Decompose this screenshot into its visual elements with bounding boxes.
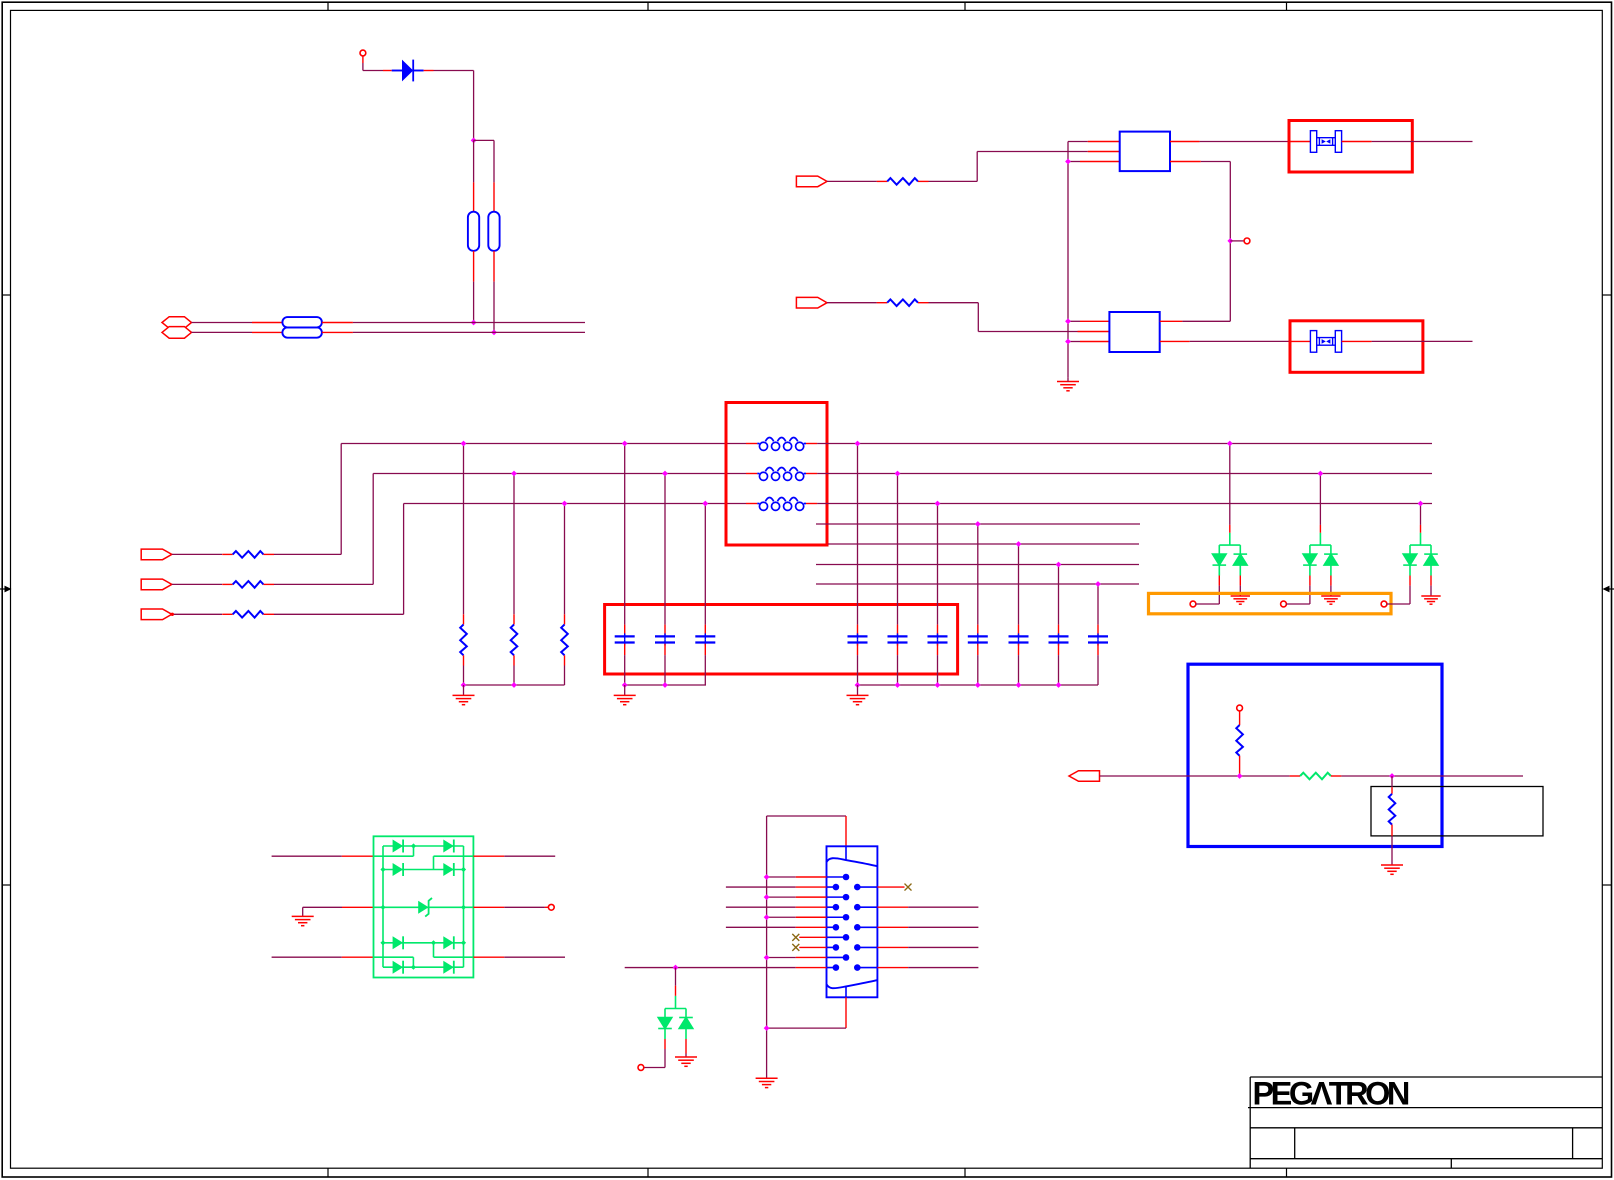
capacitor C8 xyxy=(1018,625,1020,636)
ESD diode pair DP2 xyxy=(1303,533,1338,576)
junction (green) xyxy=(411,843,416,848)
array zener DZ xyxy=(418,901,428,914)
filter element FL1 xyxy=(1310,131,1341,153)
wire capacitor bus right xyxy=(858,684,1099,686)
resistor pulldown RP3 xyxy=(564,614,566,624)
junction (green) xyxy=(411,965,416,970)
wire array mid net ground stem xyxy=(302,907,304,916)
DB9 pin row 4 xyxy=(827,906,836,908)
junction branch2 on bus B xyxy=(491,330,497,336)
wire DB9 row5 from shield net xyxy=(767,916,796,918)
no-connect row8 xyxy=(792,944,799,951)
wire row3 to capacitor C6 xyxy=(937,504,939,625)
array row D line xyxy=(383,966,464,968)
wire U-top out pin2 feedback xyxy=(1170,161,1201,163)
DB9 pin row 2 xyxy=(827,886,836,888)
capacitor C2 xyxy=(664,625,666,636)
array diode D3 xyxy=(393,863,404,876)
junction row3 RP3 xyxy=(562,501,568,507)
wire resistor ground bus xyxy=(464,684,565,686)
array diode D7 xyxy=(393,961,404,974)
wire capacitor C5 to bus xyxy=(897,655,899,685)
wire from terminal xyxy=(362,56,364,63)
inductor winding L2 xyxy=(746,473,757,475)
ground capacitor bus right xyxy=(847,695,869,704)
wire branch 1 lower xyxy=(473,251,475,282)
wire row2 to capacitor C5 xyxy=(897,474,899,625)
wire U-top pin1 xyxy=(1068,141,1088,143)
wire RV2 to ground xyxy=(1391,836,1393,865)
wire row6 to capacitor C9 xyxy=(1058,565,1060,625)
resistor series R-T2 xyxy=(877,302,888,304)
ground DP2 xyxy=(1321,596,1340,604)
wire bus row6 xyxy=(816,564,1139,566)
capacitor C7 xyxy=(977,625,979,636)
ground RV2 xyxy=(1381,865,1403,874)
terminal feedback xyxy=(1244,238,1250,244)
capacitor C3 xyxy=(704,625,706,636)
DB9 pin row 8 xyxy=(827,946,836,948)
wire DB9 row3 from shield net xyxy=(767,896,796,898)
capacitor C1 xyxy=(624,625,626,636)
wire capacitor C4 to bus xyxy=(857,655,859,685)
wire bus row3 xyxy=(404,503,746,505)
resistor pullup RV1 xyxy=(1239,711,1241,725)
input port TX1 xyxy=(796,176,827,187)
inductor winding L1 xyxy=(746,443,757,445)
junction (green) xyxy=(380,940,385,945)
wire DB9 bottom to shield xyxy=(845,997,847,1028)
transformer callout box (red) xyxy=(726,403,827,546)
DB9 pin row 5 xyxy=(827,916,847,918)
junction cap bus xyxy=(1056,682,1062,688)
wire DB9 row9 from shield net xyxy=(767,956,796,958)
wire U-bot pin1 xyxy=(1068,320,1080,322)
junction (green) xyxy=(461,905,466,910)
junction fuse branch split xyxy=(471,138,477,144)
wire DB9 right row4 xyxy=(877,906,908,908)
junction RV2 on output net xyxy=(1389,773,1395,779)
array inner right rail xyxy=(463,846,465,967)
junction row2 RP2 xyxy=(511,471,517,477)
callout box filter 1 (red) xyxy=(1289,121,1412,173)
wire diode to corner xyxy=(424,70,434,72)
svg-text:PEGΛTRON: PEGΛTRON xyxy=(1253,1076,1409,1112)
wire capacitor bus left xyxy=(625,684,706,686)
wire row1 to resistor xyxy=(463,444,465,615)
ground TVS xyxy=(675,1057,697,1066)
wire row2 to capacitor C2 xyxy=(664,474,666,625)
junction branch1 on bus A xyxy=(471,320,477,326)
junction shield row5 xyxy=(764,914,770,920)
wire U-top pin3 xyxy=(1068,161,1080,163)
junction RV1 on output net xyxy=(1237,773,1243,779)
resistor RV2 xyxy=(1391,776,1393,787)
array entry bottom xyxy=(374,956,414,958)
wire DB9 right row6 xyxy=(877,926,908,928)
wire capacitor C1 to bus xyxy=(624,655,626,685)
wire row1 to diode pair DP1 xyxy=(1229,444,1231,525)
resistor series R1 xyxy=(222,553,233,555)
junction (green) xyxy=(380,867,385,872)
wire U-bot out pin2 to filter 2 xyxy=(1160,340,1190,342)
border center arrow left xyxy=(0,588,5,590)
wire TVS left branch xyxy=(664,1039,666,1049)
wire DB9 row4 long left xyxy=(726,906,796,908)
no-connect right row2 xyxy=(905,884,912,891)
resistor pulldown RP2 xyxy=(513,614,515,624)
wire DP1 right branch to ground xyxy=(1239,586,1241,596)
array zener row line xyxy=(374,906,474,908)
wire resistor RP1 to bus xyxy=(463,666,465,686)
border zone ticks right xyxy=(1602,294,1611,296)
terminal array mid xyxy=(548,904,554,910)
filter element FL2 xyxy=(1310,331,1341,353)
border zone ticks left xyxy=(2,294,10,296)
wire branch 1 upper xyxy=(473,140,475,182)
array row C line xyxy=(383,942,464,944)
junction row1 DP1 xyxy=(1227,441,1233,447)
diode D top-left xyxy=(392,70,402,72)
wire row4 to capacitor C7 xyxy=(977,524,979,625)
wire bus row1 right xyxy=(817,443,1432,445)
terminal TVS xyxy=(638,1065,644,1071)
wire DB9 row6 long left xyxy=(726,926,796,928)
wire R1 to bus row1 xyxy=(274,553,341,555)
wire DB9 row10 bottom net xyxy=(625,967,796,969)
terminal T1 xyxy=(1190,601,1196,607)
pin mark P3 tip xyxy=(171,613,174,616)
wire U-bot pin3 xyxy=(1068,341,1080,343)
wire bus row7 xyxy=(816,583,1139,585)
terminal top-left xyxy=(360,50,366,56)
DB9 pin row 6 xyxy=(827,926,836,928)
junction (green) xyxy=(431,940,436,945)
wire array top net left xyxy=(272,855,342,857)
wire input P1 xyxy=(172,553,222,555)
array entry top xyxy=(374,855,414,857)
wire T2 to DP2 xyxy=(1286,603,1310,605)
input port P2 xyxy=(141,579,172,590)
input port P1 xyxy=(141,549,172,560)
junction shield row9 xyxy=(764,955,770,961)
wire resistor RP2 to bus xyxy=(513,666,515,686)
junction U-bot pin3 xyxy=(1065,339,1071,345)
wire U-top out pin1 to filter 1 xyxy=(1170,141,1200,143)
wire DP2 right branch to ground xyxy=(1330,586,1332,596)
resistor series RG1 (green) xyxy=(1290,775,1301,777)
junction shield row1 xyxy=(764,874,770,880)
wire capacitor C8 to bus xyxy=(1018,655,1020,685)
junction row6 C9 xyxy=(1056,562,1062,568)
wire DB9 row2 long left xyxy=(726,886,796,888)
junction row3 C3 xyxy=(702,501,708,507)
title block frame xyxy=(1248,1077,1602,1168)
fuse F1 (vertical) xyxy=(468,212,479,251)
connector hexagon pin 1 xyxy=(162,317,192,329)
wire R-T1 to U-top xyxy=(929,180,978,182)
wire input TX2 xyxy=(827,302,877,304)
wire row2 to resistor xyxy=(513,474,515,615)
wire capacitor C3 to bus xyxy=(704,655,706,685)
capacitor C5 xyxy=(897,625,899,636)
junction row1 RP1 xyxy=(461,441,467,447)
wire row1 to capacitor C4 xyxy=(857,444,859,625)
wire row3 to resistor xyxy=(564,504,566,615)
wire T1 to DP1 xyxy=(1196,603,1220,605)
wire bus row5 xyxy=(828,543,1139,545)
wire array mid net xyxy=(303,906,342,908)
wire capacitor C7 to bus xyxy=(977,655,979,685)
ground DP3 xyxy=(1421,596,1440,604)
wire R-T2 to U-bottom xyxy=(929,302,979,304)
wire TVS right branch xyxy=(685,1039,687,1054)
junction cap bus xyxy=(662,682,668,688)
DB9 pin row 7 xyxy=(827,936,847,938)
wire bus A right xyxy=(322,322,353,324)
fuse F2 (vertical) xyxy=(488,212,499,251)
terminal pullup top xyxy=(1237,705,1243,711)
terminal T3 xyxy=(1381,601,1387,607)
wire output net xyxy=(1100,775,1290,777)
IC box U-bottom xyxy=(1109,312,1159,352)
junction cap bus xyxy=(855,682,861,688)
array diode D4 xyxy=(443,863,454,876)
array diode D2 xyxy=(443,840,454,853)
wire array bottom net right xyxy=(473,956,504,958)
array diode D1 xyxy=(393,840,404,853)
wire capacitor C9 to bus xyxy=(1058,655,1060,685)
wire bus B left xyxy=(192,331,253,333)
junction row7 C10 xyxy=(1095,581,1101,587)
ground top-right net xyxy=(1057,382,1079,391)
net DB9 shield vertical xyxy=(766,816,768,1078)
wire row1 to capacitor C1 xyxy=(624,444,626,625)
wire shield top to DB9 xyxy=(767,815,846,817)
wire capacitor C6 to bus xyxy=(937,655,939,685)
wire R2 to bus row2 xyxy=(274,583,373,585)
junction gnd bus xyxy=(461,682,467,688)
wire R3 to bus row3 xyxy=(274,613,404,615)
wire DP1 left branch down xyxy=(1218,586,1220,604)
capacitor C9 xyxy=(1058,625,1060,636)
net vertical to ground (top right) xyxy=(1067,142,1069,378)
DB9 pin row 1 xyxy=(827,876,847,878)
wire input TX1 xyxy=(827,180,877,182)
ESD array box (green) xyxy=(374,836,474,977)
capacitor C6 xyxy=(937,625,939,636)
junction U-top pin3 xyxy=(1065,159,1071,165)
resistor series R2 xyxy=(222,583,233,585)
junction (green) xyxy=(461,940,466,945)
junction row4 C7 xyxy=(975,521,981,527)
array row A line xyxy=(383,845,464,847)
DB9 pin row 9 xyxy=(827,956,847,958)
orange callout box xyxy=(1149,593,1392,613)
capacitor C10 xyxy=(1097,625,1099,636)
fuse F3 (horizontal) xyxy=(282,317,322,327)
junction cap bus xyxy=(1016,682,1022,688)
DB9 pin row 3 xyxy=(827,896,847,898)
wire bus row2 right xyxy=(817,473,1432,475)
IC box U-top xyxy=(1120,132,1170,172)
DB9 connector J1 body xyxy=(827,846,878,997)
array diode D8 xyxy=(443,961,454,974)
wire row2 to diode pair DP2 xyxy=(1319,474,1321,525)
wire bus row2 xyxy=(373,473,746,475)
junction U-bot pin1 xyxy=(1065,318,1071,324)
black callout box xyxy=(1371,787,1543,836)
ESD diode pair DP1 xyxy=(1213,533,1248,576)
wire through filter 2 xyxy=(1290,340,1310,342)
array inner left rail xyxy=(374,846,474,967)
resistor pulldown RP1 xyxy=(463,614,465,624)
ground array mid net xyxy=(292,916,314,925)
wire capacitor C10 to bus xyxy=(1097,655,1099,685)
junction row5 C8 xyxy=(1016,541,1022,547)
wire DB9 row1 from shield net xyxy=(767,876,796,878)
wire bus row1 xyxy=(341,443,746,445)
wire array bottom net left xyxy=(272,956,342,958)
wire tap stub xyxy=(1230,240,1244,242)
callout box filter 2 (red) xyxy=(1290,321,1423,373)
wire resistor RP3 to bus xyxy=(564,666,566,686)
junction row1 C4 xyxy=(855,441,861,447)
ground DB9 shield xyxy=(756,1078,778,1087)
wire row7 to capacitor C10 xyxy=(1097,584,1099,625)
wire row5 to capacitor C8 xyxy=(1018,544,1020,625)
wire capacitor C2 to bus xyxy=(664,655,666,685)
junction shield bottom xyxy=(764,1025,770,1031)
terminal T2 xyxy=(1281,601,1287,607)
wire branch to second fuse xyxy=(474,139,494,141)
wire DB9 row8 stub xyxy=(799,946,826,948)
connector hexagon pin 2 xyxy=(162,327,192,339)
input port TX2 xyxy=(796,297,827,308)
array diode D6 xyxy=(443,936,454,949)
capacitor callout box (red) xyxy=(605,605,958,675)
wire DP3 right branch to ground xyxy=(1430,586,1432,596)
wire bus row4 xyxy=(816,523,1140,525)
wire U-bot out pin1 xyxy=(1160,320,1183,322)
wire branch 2 upper xyxy=(493,140,495,182)
fuse F4 (horizontal) xyxy=(282,327,322,337)
callout box (blue) xyxy=(1188,664,1442,846)
border center arrow right xyxy=(1609,588,1614,590)
resistor series R3 xyxy=(222,613,233,615)
junction feedback tap xyxy=(1227,238,1233,244)
wire TVS stem xyxy=(675,968,677,986)
junction shield row3 xyxy=(764,894,770,900)
TVS diode pair DB9 xyxy=(658,1009,693,1040)
inductor winding L3 xyxy=(746,503,757,505)
wire DP3 left branch down xyxy=(1409,586,1411,604)
wire DB9 right row8 xyxy=(877,946,908,948)
junction row2 C2 xyxy=(662,471,668,477)
wire T3 to DP3 xyxy=(1387,603,1410,605)
wire DB9 right row2 stub xyxy=(877,886,904,888)
wire row3 to diode pair DP3 xyxy=(1420,504,1422,525)
junction row3 C6 xyxy=(935,501,941,507)
junction row1 C1 xyxy=(622,441,628,447)
border zone ticks bottom xyxy=(327,1168,329,1177)
wire DB9 row7 stub xyxy=(799,936,826,938)
wire input P3 xyxy=(172,613,222,615)
junction cap bus xyxy=(622,682,628,688)
ground DP1 xyxy=(1231,596,1250,604)
ground resistor bus xyxy=(453,695,475,704)
wire branch 2 lower xyxy=(493,251,495,282)
wire bus B right xyxy=(322,331,353,333)
wire through filter 1 xyxy=(1289,141,1310,143)
wire array top net right xyxy=(473,855,504,857)
junction row3 DP3 xyxy=(1418,501,1424,507)
wire DP2 left branch down xyxy=(1309,586,1311,604)
wire input P2 xyxy=(172,583,222,585)
junction TVS stem xyxy=(673,965,679,971)
DB9 pin row 10 xyxy=(827,967,836,969)
wire output net right xyxy=(1341,775,1523,777)
junction (green) xyxy=(461,867,466,872)
ground capacitor bus left xyxy=(614,695,636,704)
array diode D5 xyxy=(393,936,404,949)
junction gnd bus xyxy=(511,682,517,688)
wire array mid net right xyxy=(473,906,504,908)
wire row3 to capacitor C3 xyxy=(704,504,706,625)
resistor series R-T1 xyxy=(877,180,888,182)
junction (green) xyxy=(380,905,385,910)
no-connect row7 xyxy=(792,934,799,941)
junction row2 C5 xyxy=(895,471,901,477)
wire bus A left xyxy=(192,322,253,324)
input port P3 xyxy=(141,609,172,620)
junction cap bus xyxy=(935,682,941,688)
junction cap bus xyxy=(975,682,981,688)
junction row2 DP2 xyxy=(1318,471,1324,477)
output port arrow (left) xyxy=(1069,771,1100,782)
wire DB9 right row10 xyxy=(877,967,908,969)
junction cap bus xyxy=(895,682,901,688)
ESD diode pair DP3 xyxy=(1403,533,1438,576)
capacitor C4 xyxy=(857,625,859,636)
wire bus row3 right xyxy=(817,503,1432,505)
array row B line xyxy=(383,869,464,871)
